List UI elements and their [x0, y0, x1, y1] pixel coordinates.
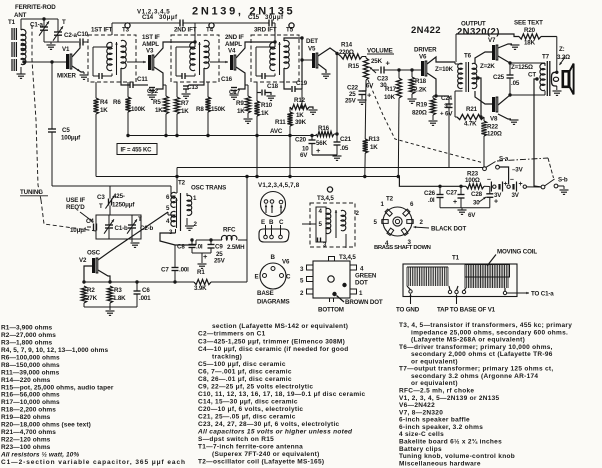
svg-text:R16—56,000 ohms: R16—56,000 ohms	[1, 392, 60, 399]
wire filter bottoms with ground 6V	[440, 207, 490, 209]
svg-text:R3: R3	[114, 287, 122, 294]
switch S-b	[554, 184, 558, 188]
wire V4 collector	[236, 42, 275, 58]
svg-text:IF = 455 KC: IF = 455 KC	[121, 148, 153, 154]
speaker magnet and cone	[563, 71, 569, 87]
IF transformer T4 dashed box	[171, 35, 219, 82]
svg-text:C21: C21	[340, 136, 352, 143]
svg-text:C27: C27	[446, 190, 458, 197]
wire V2 collector to osc coil	[98, 212, 168, 260]
svg-text:C9: C9	[215, 244, 223, 251]
svg-text:.05: .05	[511, 80, 520, 87]
wire T5 sec top to V5 base	[284, 38, 302, 89]
wire antenna top	[21, 18, 58, 20]
wire mixer base down with C5	[51, 62, 53, 129]
svg-text:C2-a: C2-a	[64, 32, 78, 39]
wire top coupling line	[112, 22, 180, 24]
node antenna tap to mixer base	[24, 61, 66, 63]
svg-text:C3: C3	[97, 194, 105, 201]
svg-text:1K: 1K	[296, 112, 304, 119]
resistor R8 150K	[207, 82, 209, 97]
svg-text:BLACK DOT: BLACK DOT	[431, 226, 466, 233]
resistor R13 1K	[363, 139, 368, 153]
svg-text:V6—2N422: V6—2N422	[399, 402, 435, 409]
svg-text:R21: R21	[466, 106, 478, 113]
svg-text:R17: R17	[385, 86, 397, 93]
svg-text:100μμf: 100μμf	[61, 135, 81, 142]
wire C3 to box and feed line	[109, 206, 111, 216]
svg-text:B: B	[269, 219, 274, 226]
svg-text:C1-b: C1-b	[115, 225, 129, 232]
svg-text:.001: .001	[139, 295, 151, 302]
wire V7 collector	[498, 56, 510, 63]
label BLACK DOT	[414, 227, 430, 228]
svg-text:Z=125Ω: Z=125Ω	[511, 64, 533, 71]
svg-text:C11: C11	[137, 76, 148, 83]
svg-text:3RD IFT: 3RD IFT	[254, 27, 277, 34]
svg-text:R6: R6	[113, 99, 121, 106]
svg-text:R13: R13	[369, 136, 381, 143]
IF transformer T3 dashed box	[88, 35, 136, 82]
svg-text:T7—output transformer; primary: T7—output transformer; primary 125 ohms …	[399, 366, 553, 373]
svg-text:T3,4,5: T3,4,5	[339, 254, 356, 261]
svg-text:C8: C8	[177, 244, 185, 251]
wire R20 right to voice coil	[541, 36, 557, 38]
svg-text:Battery clips: Battery clips	[399, 446, 442, 453]
svg-text:V6: V6	[282, 259, 290, 266]
svg-text:25K: 25K	[371, 58, 383, 65]
wire T4 primary top	[194, 23, 196, 43]
svg-text:25V: 25V	[345, 98, 357, 105]
wire T6 primary bottom to R21	[454, 91, 456, 117]
svg-text:1K: 1K	[237, 108, 245, 115]
svg-text:DOT: DOT	[355, 280, 368, 287]
wire bias top rail y282	[84, 281, 194, 283]
svg-text:C1—2-section variable capacito: C1—2-section variable capacitor, 365 μμf…	[1, 459, 185, 466]
svg-text:100K: 100K	[131, 106, 146, 113]
svg-text:2ND IF: 2ND IF	[225, 34, 244, 41]
svg-text:section (Lafayette MS-142 or e: section (Lafayette MS-142 or equivalent)	[212, 323, 348, 330]
svg-text:C6, 7—.001 μf, disc ceramic: C6, 7—.001 μf, disc ceramic	[198, 368, 292, 375]
svg-text:V7: V7	[488, 37, 496, 44]
wire R15 bottom down	[364, 80, 367, 139]
svg-text:RFC: RFC	[223, 227, 236, 234]
dashed tuning gang link	[32, 25, 41, 200]
svg-text:39K: 39K	[295, 119, 307, 126]
T345 secondary winding	[341, 210, 346, 230]
svg-text:3V: 3V	[512, 192, 520, 199]
svg-text:R12: R12	[294, 97, 306, 104]
wire V6 collector to T6	[427, 57, 455, 64]
wire T6 sec top to V7 base	[475, 52, 492, 64]
transistor V8	[492, 97, 495, 112]
svg-text:R22: R22	[487, 124, 499, 131]
svg-text:C8, 26—.01 μf, disc ceramic: C8, 26—.01 μf, disc ceramic	[198, 376, 292, 383]
svg-text:2N320(2): 2N320(2)	[457, 27, 500, 38]
T5 tuning arrow	[279, 42, 281, 75]
svg-text:MIXER: MIXER	[57, 73, 77, 80]
wire V6 emitter	[427, 73, 436, 96]
wire C8 C9 bottoms to ground	[192, 252, 211, 254]
T3 tuning arrow	[116, 42, 118, 75]
T3 secondary coil	[121, 40, 126, 68]
svg-text:T3,4,5: T3,4,5	[317, 195, 334, 202]
speaker moving coil	[552, 72, 557, 86]
svg-text:–3V: –3V	[512, 167, 524, 174]
svg-text:2N422: 2N422	[411, 25, 441, 36]
svg-text:1.8K: 1.8K	[113, 295, 126, 302]
label TO GND	[410, 294, 412, 304]
oscillator tank box	[96, 215, 141, 239]
svg-text:C5—100 μμf, disc ceramic: C5—100 μμf, disc ceramic	[198, 361, 286, 368]
svg-text:R22—120 ohms: R22—120 ohms	[1, 437, 51, 444]
svg-text:C25: C25	[493, 74, 505, 81]
svg-text:.0I: .0I	[428, 197, 435, 204]
speaker ground	[556, 86, 558, 90]
svg-text:T: T	[138, 216, 142, 223]
svg-text:C14: C14	[142, 14, 154, 21]
svg-text:V4: V4	[228, 48, 236, 55]
svg-text:C20: C20	[295, 137, 307, 144]
svg-text:USE IF: USE IF	[66, 197, 85, 204]
S-b ground	[558, 185, 564, 187]
svg-text:25V: 25V	[214, 258, 226, 265]
svg-text:V6: V6	[419, 54, 427, 61]
volume pot R15 25K	[365, 57, 367, 59]
svg-text:BOTTOM: BOTTOM	[318, 307, 344, 314]
svg-text:1250μμf: 1250μμf	[112, 202, 135, 209]
svg-text:.00I: .00I	[179, 267, 189, 274]
svg-text:T: T	[62, 19, 66, 26]
svg-text:BRASS SHAFT DOWN: BRASS SHAFT DOWN	[374, 245, 431, 251]
resistor R5 1K	[163, 84, 166, 86]
svg-text:T2: T2	[386, 196, 394, 203]
wire S-a to battery mid	[499, 167, 508, 184]
svg-text:R11: R11	[275, 119, 286, 126]
svg-text:secondary 3.2 ohms (Argonne AR: secondary 3.2 ohms (Argonne AR-174	[411, 373, 538, 380]
svg-text:R17—10,000 ohms: R17—10,000 ohms	[1, 399, 60, 406]
svg-text:V7, 8—2N320: V7, 8—2N320	[399, 409, 443, 416]
svg-text:+: +	[453, 199, 457, 206]
ground antenna	[20, 67, 22, 74]
switch S-a	[483, 167, 487, 171]
svg-text:T2: T2	[178, 180, 186, 187]
T345 bottom view square	[313, 261, 350, 298]
svg-text:(Superex 7FT-240 or equivalent: (Superex 7FT-240 or equivalent)	[212, 451, 320, 458]
svg-text:T7: T7	[542, 54, 550, 61]
label IF=455KC	[117, 144, 157, 155]
svg-text:R2: R2	[87, 287, 95, 294]
svg-text:R1—3,900 ohms: R1—3,900 ohms	[1, 325, 53, 332]
T1 left winding hatch	[407, 266, 448, 268]
svg-text:150K: 150K	[211, 106, 226, 113]
svg-text:T2—oscillator coil (Lafayette: T2—oscillator coil (Lafayette MS-165)	[198, 459, 324, 466]
T345 primary winding	[316, 207, 326, 242]
svg-text:secondary 2,000 ohms ct (Lafay: secondary 2,000 ohms ct (Lafayette TR-96	[411, 351, 553, 358]
svg-text:SEE TEXT: SEE TEXT	[514, 20, 543, 27]
svg-text:TO C1-a: TO C1-a	[531, 291, 554, 298]
svg-text:C6: C6	[142, 287, 150, 294]
label TO C1-a	[507, 292, 529, 294]
wire to C10	[58, 41, 79, 43]
svg-text:All capacitors 15 volts or hig: All capacitors 15 volts or higher unless…	[197, 429, 353, 436]
svg-text:V8: V8	[490, 116, 498, 123]
svg-text:30μμf: 30μμf	[265, 14, 284, 21]
svg-text:Z=10K: Z=10K	[435, 66, 454, 73]
svg-text:C20—10 μf, 6 volts, electrolyt: C20—10 μf, 6 volts, electrolytic	[198, 406, 303, 413]
svg-text:1K: 1K	[370, 144, 378, 151]
wire V5 collector to R14 node	[318, 48, 337, 56]
svg-text:C26: C26	[424, 190, 436, 197]
wire T3 secondary to V3 base	[127, 61, 146, 63]
svg-text:BASE: BASE	[257, 290, 274, 297]
svg-text:B: B	[271, 254, 276, 261]
battery cell 2	[507, 185, 510, 188]
svg-text:R15—pot, 25,000 ohms, audio ta: R15—pot, 25,000 ohms, audio taper	[1, 384, 114, 391]
svg-text:6V: 6V	[468, 212, 476, 219]
wire V7 emitter to ground	[498, 44, 512, 48]
T5 internal capacitor	[261, 73, 263, 79]
svg-text:TO GND: TO GND	[396, 307, 420, 314]
svg-text:V2: V2	[79, 257, 87, 264]
svg-text:tracking): tracking)	[212, 353, 242, 360]
svg-text:V3: V3	[146, 48, 154, 55]
svg-text:–: –	[487, 177, 491, 184]
T3 primary coil	[107, 42, 112, 70]
svg-text:AVC: AVC	[270, 128, 283, 135]
svg-text:V1,2,3,4,5,7,8: V1,2,3,4,5,7,8	[258, 182, 300, 189]
svg-text:C18: C18	[267, 83, 279, 90]
svg-text:C10: C10	[77, 31, 89, 38]
svg-text:RFC—2.5 mh, rf choke: RFC—2.5 mh, rf choke	[399, 388, 474, 395]
svg-text:30μμf: 30μμf	[159, 14, 178, 21]
svg-text:R19: R19	[416, 102, 428, 109]
svg-text:R21—4,700 ohms: R21—4,700 ohms	[1, 429, 56, 436]
wire coupling line 2	[195, 22, 269, 24]
svg-text:OSC: OSC	[87, 250, 101, 257]
svg-text:18K: 18K	[524, 40, 536, 47]
svg-text:T1: T1	[452, 255, 460, 262]
T4 tuning arrow	[199, 42, 201, 75]
svg-text:C14, 15—30 μμf, disc ceramic: C14, 15—30 μμf, disc ceramic	[198, 399, 298, 406]
svg-text:E: E	[261, 219, 265, 226]
wire V4 emitter	[236, 67, 245, 85]
dashed mech link volume to switches	[368, 80, 482, 163]
svg-text:1K: 1K	[155, 107, 163, 114]
T5 secondary coil	[284, 40, 289, 68]
wire bus jog down to battery row	[399, 177, 466, 187]
wires to T7	[510, 62, 537, 64]
svg-text:TUNING: TUNING	[20, 189, 43, 196]
wire C23 to V6 base	[384, 69, 421, 71]
wire T3 primary top to C14 line	[111, 23, 113, 35]
wire V5 emitter to ground	[318, 64, 326, 73]
svg-text:R19—820 ohms: R19—820 ohms	[1, 414, 51, 421]
package oval bottom	[259, 229, 289, 242]
svg-text:or equivalent): or equivalent)	[411, 358, 458, 365]
svg-text:C9, 22—25 μf, 25 volts electro: C9, 22—25 μf, 25 volts electrolytic	[198, 383, 313, 390]
svg-text:R20—18,000 ohms (see text): R20—18,000 ohms (see text)	[1, 422, 91, 429]
svg-text:R23—100 ohms: R23—100 ohms	[1, 444, 51, 451]
svg-text:10K: 10K	[384, 94, 396, 101]
resistor R3 1.8K	[107, 286, 112, 303]
svg-text:1K: 1K	[100, 107, 108, 114]
T3 internal capacitor	[98, 73, 100, 79]
svg-text:Bakelite board 6½ x 2¾ inches: Bakelite board 6½ x 2¾ inches	[399, 437, 502, 445]
svg-text:R15: R15	[348, 63, 360, 70]
wire V3 emitter	[154, 67, 163, 85]
svg-text:+: +	[494, 199, 498, 206]
svg-text:S—dpst switch on R15: S—dpst switch on R15	[198, 436, 274, 443]
svg-text:R5: R5	[153, 99, 161, 106]
wire T4 secondary to V4 base	[210, 61, 228, 63]
wire T6 sec bottom to V8 base	[475, 91, 492, 104]
T4 internal capacitor	[181, 73, 183, 79]
svg-text:V5: V5	[308, 46, 316, 53]
svg-text:T: T	[99, 203, 103, 210]
svg-text:OSC TRANS: OSC TRANS	[191, 185, 226, 192]
svg-text:VOLUME: VOLUME	[367, 48, 393, 55]
svg-text:Z=2K: Z=2K	[480, 63, 495, 70]
svg-text:C7: C7	[161, 267, 169, 274]
svg-text:C23, 24, 27, 28—30 μf, 6 volts: C23, 24, 27, 28—30 μf, 6 volts, electrol…	[198, 421, 340, 428]
svg-text:6-inch speaker baffle: 6-inch speaker baffle	[399, 417, 470, 424]
svg-text:4.7K: 4.7K	[464, 121, 477, 128]
svg-text:S-a: S-a	[499, 156, 509, 163]
T2 ground pin2	[186, 218, 188, 225]
svg-text:TAP TO BASE OF V1: TAP TO BASE OF V1	[437, 307, 496, 314]
svg-text:REQ'D: REQ'D	[66, 204, 85, 211]
svg-text:R3—1,800 ohms: R3—1,800 ohms	[1, 339, 53, 346]
svg-text:R2—27,000 ohms: R2—27,000 ohms	[1, 332, 56, 339]
svg-text:30: 30	[473, 200, 480, 207]
svg-text:C5: C5	[62, 127, 70, 134]
svg-text:1ST IF: 1ST IF	[142, 34, 160, 41]
svg-text:C3—425-1,250 μμf, trimmer (Elm: C3—425-1,250 μμf, trimmer (Elmenco 308M)	[198, 338, 345, 345]
svg-text:2.5MH: 2.5MH	[227, 244, 245, 251]
svg-text:MOVING COIL: MOVING COIL	[497, 249, 537, 256]
svg-text:C2—trimmers on C1: C2—trimmers on C1	[198, 331, 266, 338]
svg-text:6-inch speaker, 3.2 ohms: 6-inch speaker, 3.2 ohms	[399, 424, 483, 431]
svg-text:Z:: Z:	[559, 46, 565, 53]
wire V3 collector	[154, 42, 195, 58]
T4 secondary coil	[204, 40, 209, 68]
dash-dot link S-a to S-b	[497, 158, 548, 161]
svg-text:27K: 27K	[86, 295, 98, 302]
wire V1 emitter with ground	[72, 66, 84, 72]
svg-text:R10: R10	[261, 102, 273, 109]
svg-text:C16: C16	[221, 76, 233, 83]
T6 secondary center tap	[476, 76, 479, 79]
T2 pin wires	[171, 195, 176, 197]
battery cell 1	[484, 185, 490, 187]
svg-text:V1: V1	[62, 46, 70, 53]
svg-text:DIAGRAMS: DIAGRAMS	[257, 299, 290, 306]
green dot	[342, 283, 346, 287]
svg-text:R6—100,000 ohms: R6—100,000 ohms	[1, 354, 60, 361]
svg-text:C4—10 μμf, disc ceramic (if ne: C4—10 μμf, disc ceramic (if needed for g…	[198, 346, 349, 353]
T2 winding arrows	[176, 198, 178, 228]
svg-text:DRIVER: DRIVER	[414, 47, 437, 54]
svg-text:4 size-C cells: 4 size-C cells	[399, 431, 444, 438]
antenna coil	[21, 29, 26, 50]
capacitor C1-b variable	[105, 224, 113, 226]
svg-text:1K: 1K	[261, 110, 269, 117]
svg-text:Tuning knob, volume-control kn: Tuning knob, volume-control knob	[399, 453, 515, 460]
resistor R11 39K	[289, 107, 291, 112]
resistor R9 1K	[245, 84, 248, 86]
wire primary3 return to bus	[256, 136, 258, 177]
svg-text:R4: R4	[100, 99, 108, 106]
T2 core	[180, 193, 182, 231]
svg-text:3.9K: 3.9K	[194, 285, 207, 292]
svg-text:T6—driver transformer; primary: T6—driver transformer; primary 10,000 oh…	[399, 344, 553, 351]
svg-text:1ST IFT: 1ST IFT	[91, 27, 113, 34]
svg-text:R14: R14	[341, 42, 353, 49]
wire V8 collector	[498, 95, 510, 105]
svg-text:R9: R9	[236, 100, 244, 107]
svg-text:All resistors ½ watt, 10%: All resistors ½ watt, 10%	[0, 450, 79, 458]
svg-text:R14—220 ohms: R14—220 ohms	[1, 377, 51, 384]
svg-text:.05: .05	[340, 145, 349, 152]
svg-text:C: C	[286, 274, 291, 281]
IF transformer T5 dashed box	[251, 35, 299, 82]
svg-text:220Ω: 220Ω	[339, 49, 354, 56]
T1 terminals	[409, 290, 412, 293]
wire main bus y176.5	[96, 176, 399, 178]
svg-text:C15: C15	[248, 14, 260, 21]
svg-text:R20: R20	[524, 27, 536, 34]
svg-text:2ND IFT: 2ND IFT	[174, 27, 197, 34]
wire main bus y167.5	[177, 167, 483, 169]
svg-text:1K: 1K	[181, 108, 189, 115]
label TAP TO BASE OF V1	[456, 295, 458, 305]
svg-text:(Lafayette MS-268A or equivale: (Lafayette MS-268A or equivalent)	[411, 337, 525, 344]
svg-text:C: C	[279, 219, 284, 226]
wire wiper to C23	[372, 69, 379, 71]
svg-text:T1—7-inch ferrite-core antenna: T1—7-inch ferrite-core antenna	[198, 444, 303, 451]
svg-text:820Ω: 820Ω	[412, 110, 427, 117]
svg-text:R8—150,000 ohms: R8—150,000 ohms	[1, 362, 60, 369]
svg-text:Miscellaneous hardware: Miscellaneous hardware	[399, 460, 481, 467]
svg-text:S-b: S-b	[558, 177, 568, 184]
wire T5 primary top	[274, 23, 276, 43]
svg-text:R8: R8	[196, 106, 204, 113]
wire C1a-C2a bottom with ground	[44, 41, 58, 43]
wire bias bottoms with ground	[84, 306, 137, 308]
ground osc tank	[131, 239, 133, 242]
T4 primary coil	[190, 42, 195, 70]
svg-text:FERRITE-ROD: FERRITE-ROD	[15, 4, 56, 11]
svg-text:+: +	[519, 181, 523, 188]
svg-text:10μμf: 10μμf	[70, 227, 87, 234]
T1 moving coil hatch	[464, 265, 466, 289]
wire volume feed vertical	[336, 53, 338, 134]
wire mixer to osc feed y186	[52, 185, 171, 187]
svg-text:or equivalent): or equivalent)	[411, 380, 458, 387]
svg-text:R1: R1	[197, 269, 205, 276]
svg-text:R18—2,200 ohms: R18—2,200 ohms	[1, 407, 56, 414]
svg-text:T6: T6	[464, 53, 472, 60]
wire V8 emitter to ground	[498, 114, 511, 119]
svg-text:425-: 425-	[113, 193, 125, 200]
svg-text:impedance 25,000 ohms, seconda: impedance 25,000 ohms, secondary 600 ohm…	[411, 329, 568, 336]
svg-text:BROWN DOT: BROWN DOT	[345, 299, 383, 306]
T5 primary coil	[270, 42, 275, 70]
svg-text:R4, 5, 7, 9, 10, 12, 13—1,000: R4, 5, 7, 9, 10, 12, 13—1,000 ohms	[1, 347, 108, 354]
wire R11 bottom to bus	[289, 126, 291, 177]
wire battery to S-b	[527, 186, 542, 188]
